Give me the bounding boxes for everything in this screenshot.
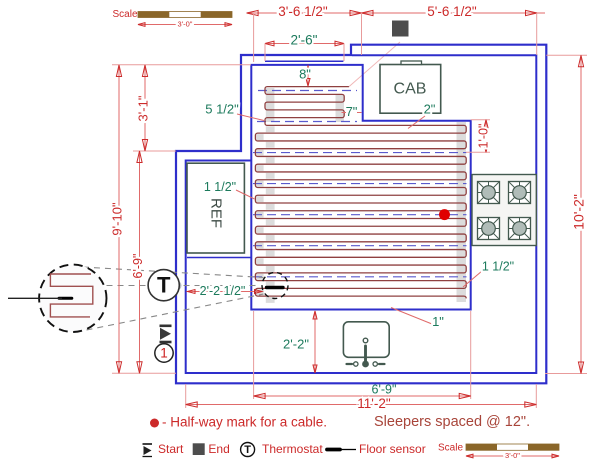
svg-text:1 1/2": 1 1/2" xyxy=(204,180,236,194)
svg-text:5'-6 1/2": 5'-6 1/2" xyxy=(427,4,477,19)
svg-text:11'-2": 11'-2" xyxy=(357,396,391,411)
burner 4 xyxy=(509,218,531,240)
top dimension line xyxy=(247,12,545,14)
detail circle xyxy=(39,265,106,332)
svg-text:2'-2": 2'-2" xyxy=(283,336,309,351)
label 2 xyxy=(408,116,425,129)
dim 6-9 bottom xyxy=(254,395,471,397)
cable lead to end xyxy=(349,42,400,87)
counter edge below REF xyxy=(187,257,251,259)
thermostat T xyxy=(148,270,181,301)
svg-text:2'-6": 2'-6" xyxy=(291,33,318,48)
detail cable meander xyxy=(50,274,92,317)
floor sensor on plan xyxy=(267,286,284,289)
refrigerator REF xyxy=(187,163,244,253)
dim 1-0 xyxy=(485,120,487,153)
svg-text:T: T xyxy=(157,272,171,297)
svg-text:6'-9": 6'-9" xyxy=(131,254,145,279)
legend start symbol xyxy=(143,444,153,457)
callout line lower tangent xyxy=(87,294,264,330)
svg-text:T: T xyxy=(244,444,251,456)
stove xyxy=(472,175,536,246)
svg-text:Thermostat: Thermostat xyxy=(262,442,323,456)
ext line left bottom xyxy=(112,372,176,374)
ext lines top xyxy=(253,13,255,62)
svg-text:7": 7" xyxy=(346,104,358,119)
dashed guide line 3 xyxy=(253,214,467,216)
svg-text:REF: REF xyxy=(208,198,225,228)
inner wall xyxy=(186,55,537,373)
ext line left top xyxy=(112,64,251,66)
svg-text:2": 2" xyxy=(424,101,436,116)
svg-text:2'-2 1/2": 2'-2 1/2" xyxy=(200,284,246,298)
svg-text:6'-9": 6'-9" xyxy=(372,382,397,396)
sensor location circle xyxy=(262,273,288,299)
ext lines 1-0 xyxy=(471,119,490,121)
svg-text:3'-0": 3'-0" xyxy=(178,19,193,28)
legend thermostat symbol xyxy=(241,443,255,457)
dashed guide line 4 xyxy=(253,245,467,247)
outer wall xyxy=(176,45,546,384)
svg-text:- Half-way mark for a cable.: - Half-way mark for a cable. xyxy=(162,415,327,430)
callout line upper tangent xyxy=(83,267,264,278)
sleeper strip upper-left xyxy=(266,88,275,122)
sensor lead wire xyxy=(8,297,62,299)
niche edge line xyxy=(265,60,343,62)
dim 8 xyxy=(307,66,309,86)
dim 10-2 xyxy=(580,55,582,373)
svg-text:CAB: CAB xyxy=(394,81,427,98)
svg-text:Floor sensor: Floor sensor xyxy=(359,442,426,456)
label 7 xyxy=(342,112,347,114)
dim 11-2 xyxy=(186,404,537,406)
detail floor sensor xyxy=(59,297,72,300)
svg-text:1: 1 xyxy=(160,346,168,361)
svg-text:Scale: Scale xyxy=(112,9,137,20)
svg-text:3'-1": 3'-1" xyxy=(135,95,150,121)
half-way mark red dot xyxy=(439,209,450,220)
svg-text:Scale: Scale xyxy=(438,443,463,454)
svg-text:1": 1" xyxy=(432,314,444,329)
svg-text:3'-6 1/2": 3'-6 1/2" xyxy=(278,4,328,19)
heating cable serpentine xyxy=(255,87,466,299)
sleeper strip upper-right xyxy=(336,95,345,122)
dim 2-2half xyxy=(188,291,263,293)
svg-text:8": 8" xyxy=(299,66,311,81)
scale bar top-left xyxy=(112,9,232,28)
sleeper strip main-right xyxy=(457,122,467,302)
half-way note dot xyxy=(150,419,159,428)
svg-text:9'-10": 9'-10" xyxy=(109,202,124,236)
label 5 1/2 xyxy=(237,114,264,121)
legend floor sensor symbol xyxy=(327,448,340,452)
dim 2-6 xyxy=(265,43,344,45)
dim 3-1 xyxy=(144,65,146,151)
sleeper blocks main-left xyxy=(256,126,274,303)
burner 3 xyxy=(478,218,500,240)
dashed guide line 1 xyxy=(253,152,467,154)
scale bar bottom-right xyxy=(438,443,559,460)
svg-text:5 1/2": 5 1/2" xyxy=(205,101,239,116)
dim 9-10 xyxy=(118,65,120,373)
legend end symbol xyxy=(193,443,205,455)
dashed guide line 5 xyxy=(253,276,467,278)
label 1 xyxy=(391,308,432,325)
dim 2-2 xyxy=(314,311,316,373)
dashed guide line short 2 xyxy=(257,121,357,123)
dim 6-9 left xyxy=(139,151,141,373)
dashed guide line 2 xyxy=(253,183,467,185)
circled 1 xyxy=(155,344,173,362)
burner 1 xyxy=(478,182,500,204)
svg-text:1 1/2": 1 1/2" xyxy=(482,259,514,273)
svg-text:End: End xyxy=(208,442,229,456)
svg-text:3'-0": 3'-0" xyxy=(505,451,520,460)
ext lines bottom 6-9 xyxy=(253,311,255,399)
callout line through thermostat xyxy=(107,285,258,287)
svg-text:1'-0": 1'-0" xyxy=(476,124,490,149)
cable end junction square xyxy=(392,21,409,37)
cabinet CAB xyxy=(380,61,441,113)
ext lines bottom 11-2 xyxy=(185,384,187,408)
sink xyxy=(343,322,389,368)
svg-text:Start: Start xyxy=(158,442,184,456)
burner 2 xyxy=(509,182,531,204)
label 1 1/2 left xyxy=(236,190,255,199)
start marker xyxy=(160,326,172,342)
ext lines right xyxy=(546,54,587,56)
svg-text:10'-2": 10'-2" xyxy=(571,194,587,230)
dashed guide line top section xyxy=(258,90,357,92)
svg-text:Sleepers spaced @ 12".: Sleepers spaced @ 12". xyxy=(374,414,530,430)
label 1 1/2 right xyxy=(463,271,482,287)
heated area border xyxy=(251,65,470,310)
ext line left step xyxy=(133,150,176,152)
